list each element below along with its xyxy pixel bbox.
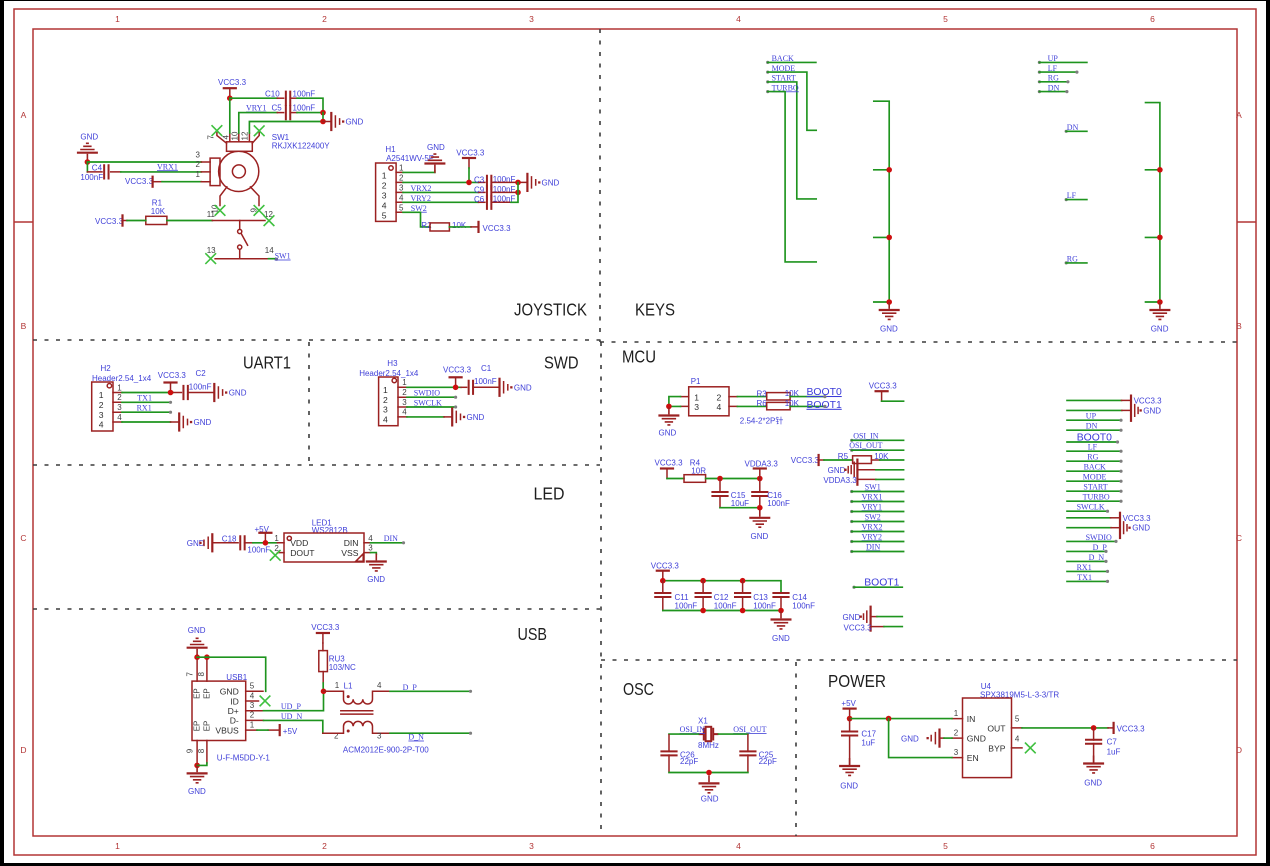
wire C1 to GND bbox=[473, 386, 499, 388]
ground GND at LED1 bbox=[366, 554, 387, 585]
net label TURBO mcu bbox=[1067, 493, 1123, 503]
svg-text:SW2: SW2 bbox=[865, 512, 881, 521]
resistor R5 bbox=[838, 452, 889, 464]
svg-text:10K: 10K bbox=[452, 221, 467, 230]
net label UP mcu bbox=[1067, 412, 1123, 422]
connector H3 bbox=[359, 359, 419, 426]
capacitor C7 bbox=[1085, 728, 1120, 763]
wire VCC to R5 bbox=[824, 459, 853, 461]
wire VCC3.3 to R1 bbox=[127, 220, 146, 222]
wire P1 left pins to GND bbox=[669, 397, 681, 407]
svg-text:DN: DN bbox=[1067, 123, 1079, 132]
svg-text:GND: GND bbox=[1084, 779, 1102, 788]
svg-text:GND: GND bbox=[880, 325, 898, 334]
net label SWCLK bbox=[407, 398, 457, 408]
svg-text:VCC3.3: VCC3.3 bbox=[456, 148, 485, 157]
net label LF key bbox=[1065, 191, 1087, 201]
net label MODE mcu bbox=[1067, 473, 1123, 483]
junction VCC node bbox=[227, 95, 233, 101]
svg-text:LF: LF bbox=[1088, 443, 1098, 452]
svg-text:4: 4 bbox=[250, 691, 255, 700]
svg-text:2: 2 bbox=[382, 181, 387, 191]
net label RX1 mcu bbox=[1067, 563, 1109, 573]
svg-text:100nF: 100nF bbox=[753, 602, 776, 611]
svg-text:VDDA3.3: VDDA3.3 bbox=[745, 460, 779, 469]
power flag VCC3.3 at R5 bbox=[791, 455, 824, 465]
resistor R3 bbox=[757, 389, 800, 400]
capacitor C17 bbox=[841, 719, 877, 765]
svg-text:8MHz: 8MHz bbox=[698, 741, 719, 750]
svg-text:GND: GND bbox=[187, 539, 205, 548]
wire keys left bus bbox=[874, 101, 889, 302]
junction VCC/C2 bbox=[168, 390, 174, 396]
capacitor C3 bbox=[474, 175, 515, 190]
no-connect X pin9 bbox=[254, 206, 264, 216]
svg-text:1: 1 bbox=[115, 14, 120, 24]
wire C5 to right rail junction bbox=[290, 112, 297, 114]
svg-text:4: 4 bbox=[717, 402, 722, 412]
ground GND left keys bus bbox=[879, 302, 900, 334]
connector P1 bbox=[681, 377, 738, 416]
net label BOOT0 bbox=[807, 387, 842, 398]
svg-text:EP: EP bbox=[203, 721, 212, 732]
svg-text:1uF: 1uF bbox=[861, 739, 875, 748]
svg-text:OSC: OSC bbox=[623, 679, 654, 699]
capacitor C18 bbox=[222, 535, 270, 555]
ground GND at cap rail bbox=[771, 612, 792, 643]
wire RU3 to L1 node bbox=[322, 672, 324, 683]
svg-text:1: 1 bbox=[196, 170, 201, 179]
wire VRX1 row bbox=[121, 171, 202, 173]
junction C7 node bbox=[1091, 725, 1097, 731]
svg-text:RX1: RX1 bbox=[137, 404, 152, 413]
svg-text:A2541WV-5P: A2541WV-5P bbox=[386, 154, 434, 163]
wire H2 pin4 row bbox=[122, 421, 171, 423]
svg-text:SWDIO: SWDIO bbox=[414, 389, 440, 398]
wire osc top left bbox=[669, 733, 699, 735]
svg-text:SWD: SWD bbox=[544, 353, 579, 373]
wire R2 to VCC bbox=[449, 226, 471, 228]
svg-text:3: 3 bbox=[382, 191, 387, 201]
wire C2 to GND bbox=[188, 392, 214, 394]
svg-text:4: 4 bbox=[382, 200, 387, 210]
junction at GND/C4 node bbox=[85, 159, 91, 165]
svg-text:C6: C6 bbox=[474, 195, 485, 204]
ground GND at P1 bbox=[658, 408, 679, 438]
svg-text:100nF: 100nF bbox=[792, 602, 815, 611]
wire +5V to IN bbox=[850, 718, 952, 720]
net label DN mcu bbox=[1067, 422, 1123, 432]
svg-text:H2: H2 bbox=[101, 364, 112, 373]
svg-text:EP: EP bbox=[203, 688, 212, 699]
svg-text:MODE: MODE bbox=[1083, 473, 1107, 482]
svg-text:5: 5 bbox=[943, 841, 948, 851]
capacitor C6 bbox=[474, 195, 515, 210]
P1 inside pin numbers bbox=[694, 392, 721, 412]
svg-text:P1: P1 bbox=[691, 377, 701, 386]
svg-text:GND: GND bbox=[80, 133, 98, 142]
svg-text:GND: GND bbox=[188, 626, 206, 635]
net label TURBO bbox=[766, 83, 816, 262]
wire C15 to gnd rail bbox=[720, 507, 760, 509]
USB1 pin numbers bbox=[250, 682, 255, 730]
SW1 rotated pin numbers bottom bbox=[210, 204, 258, 213]
svg-text:IN: IN bbox=[967, 714, 976, 724]
svg-text:VCC3.3: VCC3.3 bbox=[158, 371, 187, 380]
wire R6 to BOOT1 bbox=[790, 405, 824, 407]
svg-text:6: 6 bbox=[1150, 14, 1155, 24]
H2 pin numbers bbox=[117, 383, 122, 421]
net label SWDIO mcu bbox=[1067, 533, 1118, 543]
svg-text:GND: GND bbox=[967, 734, 986, 744]
svg-text:UP: UP bbox=[1086, 412, 1097, 421]
svg-text:4: 4 bbox=[368, 534, 373, 543]
svg-text:1uF: 1uF bbox=[1107, 748, 1121, 757]
svg-text:VSS: VSS bbox=[341, 548, 358, 558]
junction +5V/C17 bbox=[847, 716, 853, 722]
svg-text:8: 8 bbox=[197, 748, 206, 753]
svg-text:L1: L1 bbox=[344, 681, 353, 690]
svg-text:DIN: DIN bbox=[384, 534, 398, 543]
svg-text:C9: C9 bbox=[474, 185, 485, 194]
capacitor C5 bbox=[272, 104, 316, 121]
svg-text:GND: GND bbox=[901, 735, 919, 744]
net label MODE bbox=[766, 64, 816, 131]
capacitor C26 bbox=[660, 735, 698, 772]
svg-text:VDD: VDD bbox=[290, 538, 308, 548]
svg-text:14: 14 bbox=[265, 246, 274, 255]
svg-text:R6: R6 bbox=[757, 399, 768, 408]
power flag VCC3.3 right top bbox=[1067, 396, 1162, 421]
wire P1 pin2 to R3 bbox=[737, 396, 766, 398]
net label UP bbox=[1038, 54, 1087, 64]
no-connect X pin7 bbox=[212, 126, 222, 136]
svg-text:DN: DN bbox=[1086, 422, 1098, 431]
svg-text:SW1: SW1 bbox=[275, 252, 291, 261]
svg-text:C5: C5 bbox=[272, 104, 283, 113]
IC LED1 WS2812B bbox=[278, 519, 371, 562]
svg-text:GND: GND bbox=[659, 428, 677, 437]
svg-text:R5: R5 bbox=[838, 452, 849, 461]
wire right rail lower bbox=[322, 113, 324, 122]
svg-text:9: 9 bbox=[186, 748, 195, 753]
svg-text:EN: EN bbox=[967, 753, 979, 763]
svg-text:7: 7 bbox=[186, 672, 195, 677]
svg-text:TX1: TX1 bbox=[1077, 573, 1092, 582]
svg-text:5: 5 bbox=[399, 203, 404, 212]
capacitor C11 bbox=[654, 581, 697, 611]
wire R1 to pin12 bbox=[167, 220, 212, 222]
junction +5V node bbox=[263, 540, 269, 546]
capacitor C16 bbox=[751, 479, 790, 508]
svg-text:100nF: 100nF bbox=[293, 104, 316, 113]
junction bottom C14 bbox=[778, 608, 784, 614]
wire H1 pin1 to GND bbox=[403, 171, 435, 173]
net label TX1 mcu bbox=[1067, 573, 1109, 583]
svg-text:BYP: BYP bbox=[988, 743, 1005, 753]
svg-text:C2: C2 bbox=[196, 369, 207, 378]
svg-text:4: 4 bbox=[736, 14, 741, 24]
ground GND right of C3 bbox=[527, 174, 559, 191]
svg-text:GND: GND bbox=[188, 787, 206, 796]
svg-text:VRY2: VRY2 bbox=[862, 532, 882, 541]
wire C6 to node bbox=[491, 201, 511, 203]
net label BOOT1 bbox=[807, 400, 842, 411]
H3 inside pin names bbox=[383, 385, 388, 424]
wire RU3 green bit bbox=[322, 683, 324, 691]
svg-text:C18: C18 bbox=[222, 535, 237, 544]
svg-text:4: 4 bbox=[377, 681, 382, 690]
inductor L1 bottom winding bbox=[323, 721, 390, 740]
wire R4 to VDDA bbox=[706, 478, 760, 480]
svg-text:22pF: 22pF bbox=[759, 757, 777, 766]
capacitor C10 bbox=[265, 90, 315, 106]
net label VRY1 mcu bbox=[850, 502, 903, 513]
net label BACK bbox=[766, 54, 816, 64]
net label VRX2 mcu bbox=[850, 522, 903, 533]
power flag VCC3.3 right lower bbox=[1067, 513, 1151, 538]
svg-text:VCC3.3: VCC3.3 bbox=[844, 623, 873, 632]
power flag VCC3.3 at H1 bbox=[456, 148, 485, 182]
ground GND right top bbox=[1067, 405, 1161, 417]
svg-text:GND: GND bbox=[467, 413, 485, 422]
net label SWDIO bbox=[407, 389, 457, 399]
svg-text:2: 2 bbox=[954, 729, 959, 738]
svg-text:H3: H3 bbox=[387, 359, 398, 368]
ground GND at C1 bbox=[500, 379, 532, 396]
junction shield top1 bbox=[194, 654, 200, 660]
no-connect X pin13 bbox=[206, 254, 216, 264]
junction left bus mid2 bbox=[886, 235, 892, 241]
no-connect X BYP bbox=[1026, 743, 1036, 753]
svg-text:3: 3 bbox=[694, 402, 699, 412]
resistor RU3 bbox=[319, 651, 356, 672]
svg-text:1: 1 bbox=[115, 841, 120, 851]
junction left bus mid1 bbox=[886, 167, 892, 173]
net label VRY2 mcu bbox=[850, 532, 903, 543]
svg-text:4: 4 bbox=[117, 413, 122, 422]
svg-text:4: 4 bbox=[383, 414, 388, 424]
svg-text:SWCLK: SWCLK bbox=[1077, 503, 1105, 512]
svg-text:SWDIO: SWDIO bbox=[1086, 533, 1112, 542]
wire H1 pin2 row bbox=[403, 181, 479, 183]
svg-text:RKJXK122400Y: RKJXK122400Y bbox=[272, 142, 330, 151]
svg-text:VCC3.3: VCC3.3 bbox=[655, 458, 684, 467]
junction rail C12 bbox=[700, 578, 706, 584]
svg-text:+5V: +5V bbox=[841, 699, 856, 708]
svg-text:2: 2 bbox=[322, 841, 327, 851]
no-connect X pin12 bbox=[264, 216, 274, 226]
wire row3 from pin bbox=[249, 122, 323, 134]
wire R5 out bbox=[871, 459, 903, 461]
svg-text:START: START bbox=[1083, 483, 1107, 492]
junction EN branch bbox=[886, 716, 892, 722]
svg-text:D_P: D_P bbox=[403, 683, 418, 692]
switch SW1 pole bbox=[238, 221, 248, 259]
wire GND node down to C4 bbox=[86, 162, 88, 172]
svg-text:5: 5 bbox=[382, 210, 387, 220]
net label RG mcu bbox=[1067, 453, 1123, 463]
wire shield bottom bbox=[197, 763, 207, 765]
svg-text:ACM2012E-900-2P-T00: ACM2012E-900-2P-T00 bbox=[343, 745, 429, 754]
svg-text:BACK: BACK bbox=[1084, 463, 1106, 472]
svg-text:3: 3 bbox=[368, 544, 373, 553]
wire VSS to GND bbox=[371, 553, 377, 554]
svg-text:2: 2 bbox=[99, 400, 104, 410]
power flag VCC3.3 at RU3 bbox=[311, 623, 340, 650]
svg-text:GND: GND bbox=[772, 634, 790, 643]
svg-text:LF: LF bbox=[1067, 191, 1077, 200]
svg-text:VCC3.3: VCC3.3 bbox=[483, 224, 512, 233]
svg-text:C17: C17 bbox=[861, 730, 876, 739]
frame column ticks bbox=[14, 221, 1256, 223]
wire C10 to right rail bbox=[290, 97, 297, 99]
rotated pin numbers 7,8 bbox=[186, 672, 207, 677]
connector H1 bbox=[376, 145, 435, 221]
svg-text:VCC3.3: VCC3.3 bbox=[1134, 397, 1163, 406]
rotated pin numbers 9,8 bottom bbox=[186, 748, 207, 753]
svg-text:DOUT: DOUT bbox=[290, 548, 315, 558]
wire VCC down to pin4 bbox=[229, 98, 231, 133]
svg-text:DIN: DIN bbox=[866, 542, 880, 551]
svg-text:100nF: 100nF bbox=[767, 499, 790, 508]
wire osc bottom rail bbox=[669, 772, 748, 774]
svg-text:VCC3.3: VCC3.3 bbox=[1123, 514, 1152, 523]
wire C18 to +5V node bbox=[245, 542, 253, 544]
net label START bbox=[766, 74, 816, 199]
svg-text:VCC3.3: VCC3.3 bbox=[95, 217, 124, 226]
ground GND at H3 pin4 bbox=[452, 408, 484, 425]
net label LF mcu bbox=[1067, 443, 1123, 453]
svg-text:EP: EP bbox=[192, 721, 201, 732]
svg-text:OSI_IN: OSI_IN bbox=[680, 725, 706, 734]
connector USB1 bbox=[192, 673, 264, 741]
svg-text:JOYSTICK: JOYSTICK bbox=[514, 300, 587, 320]
svg-text:VRX1: VRX1 bbox=[862, 492, 883, 501]
svg-text:3: 3 bbox=[402, 398, 407, 407]
wire H1 pin5 to R2 bbox=[403, 212, 430, 227]
H1 pin numbers bbox=[399, 163, 404, 212]
ground GND left of C18 bbox=[187, 534, 238, 551]
svg-text:VCC3.3: VCC3.3 bbox=[443, 366, 472, 375]
ground GND at C2 bbox=[214, 384, 246, 401]
USB1 inside pin names bbox=[215, 687, 239, 736]
wire VCC to R4 bbox=[667, 478, 684, 480]
junction VDDA node bbox=[757, 476, 763, 482]
ground GND top of USB1 bbox=[187, 626, 208, 657]
wire cap rail bottom bbox=[663, 610, 781, 612]
svg-text:GND: GND bbox=[542, 179, 560, 188]
svg-text:100nF: 100nF bbox=[80, 173, 103, 182]
svg-text:A: A bbox=[1236, 110, 1242, 120]
net label SW1 mcu bbox=[850, 482, 903, 493]
net label BOOT0 mcu bbox=[1067, 432, 1119, 443]
LED1 inside pin names bbox=[290, 538, 359, 558]
svg-text:5: 5 bbox=[250, 682, 255, 691]
svg-text:4: 4 bbox=[736, 841, 741, 851]
svg-text:5: 5 bbox=[943, 14, 948, 24]
svg-text:D+: D+ bbox=[228, 706, 239, 716]
svg-text:VRY2: VRY2 bbox=[411, 194, 431, 203]
svg-text:DIN: DIN bbox=[344, 538, 359, 548]
svg-text:1: 1 bbox=[117, 383, 122, 392]
svg-text:GND: GND bbox=[843, 613, 861, 622]
junction rail C13 bbox=[740, 578, 746, 584]
svg-text:GND: GND bbox=[1151, 325, 1169, 334]
svg-text:VRY1: VRY1 bbox=[246, 104, 266, 113]
svg-text:7: 7 bbox=[207, 135, 216, 140]
junction right bus bottom bbox=[1157, 299, 1163, 305]
svg-text:GND: GND bbox=[229, 389, 247, 398]
svg-text:3: 3 bbox=[954, 748, 959, 757]
net label BOOT1 mcu bbox=[852, 578, 902, 589]
wire VRY1 row bbox=[239, 113, 277, 133]
junction right bus mid2 bbox=[1157, 235, 1163, 241]
power flag VCC3.3 at C11 bbox=[651, 562, 680, 581]
svg-text:100nF: 100nF bbox=[474, 377, 497, 386]
net label DN key bbox=[1065, 123, 1087, 133]
net label D_P bbox=[390, 683, 472, 693]
SW1 pin numbers 3,2,1 bbox=[196, 150, 201, 179]
svg-text:GND: GND bbox=[346, 118, 364, 127]
svg-text:VRY1: VRY1 bbox=[862, 502, 882, 511]
junction right bus mid1 bbox=[1157, 167, 1163, 173]
svg-text:TX1: TX1 bbox=[137, 394, 152, 403]
junction bottom C13 bbox=[740, 608, 746, 614]
svg-text:USB: USB bbox=[518, 624, 548, 644]
svg-text:1: 1 bbox=[383, 385, 388, 395]
junction rail C11 bbox=[660, 578, 666, 584]
capacitor C2 bbox=[183, 369, 211, 400]
net label DIN bbox=[371, 534, 406, 544]
power flag VCC3.3 mcu top bbox=[869, 381, 904, 401]
svg-text:4: 4 bbox=[1015, 734, 1020, 743]
wire pin1 row bbox=[162, 181, 201, 183]
net label VRX1 mcu bbox=[850, 492, 903, 503]
ground GND bottom of USB1 bbox=[187, 765, 208, 795]
junction osc gnd bbox=[706, 770, 712, 776]
svg-text:C3: C3 bbox=[474, 175, 485, 184]
inductor L1 top winding bbox=[324, 681, 391, 704]
svg-text:GND: GND bbox=[220, 687, 239, 697]
wire OUT to VCC bbox=[1022, 727, 1108, 729]
svg-text:MCU: MCU bbox=[622, 347, 656, 367]
svg-text:GND: GND bbox=[840, 781, 858, 790]
svg-text:2: 2 bbox=[117, 393, 122, 402]
wire VBUS green bit bbox=[257, 729, 268, 731]
svg-text:VCC3.3: VCC3.3 bbox=[218, 78, 247, 87]
wire end dot bbox=[275, 258, 278, 261]
svg-text:UD_P: UD_P bbox=[281, 702, 302, 711]
wire H3 pin4 row bbox=[407, 416, 444, 418]
svg-text:C1: C1 bbox=[481, 364, 492, 373]
svg-text:VCC3.3: VCC3.3 bbox=[1117, 725, 1146, 734]
svg-text:3: 3 bbox=[383, 405, 388, 415]
svg-text:GND: GND bbox=[367, 575, 385, 584]
power flag +5V at LED bbox=[255, 525, 272, 543]
shield stubs top bbox=[197, 660, 207, 681]
capacitor C14 bbox=[772, 593, 815, 611]
net label OSI_IN bbox=[850, 431, 903, 442]
LED1 pin numbers bbox=[274, 534, 373, 553]
crystal X1 bbox=[698, 717, 719, 751]
svg-text:100nF: 100nF bbox=[714, 602, 737, 611]
svg-text:GND: GND bbox=[828, 466, 846, 475]
svg-text:100nF: 100nF bbox=[247, 545, 270, 554]
capacitor C25 bbox=[739, 735, 777, 772]
svg-text:VRX2: VRX2 bbox=[862, 522, 883, 531]
connector H2 bbox=[92, 364, 152, 431]
